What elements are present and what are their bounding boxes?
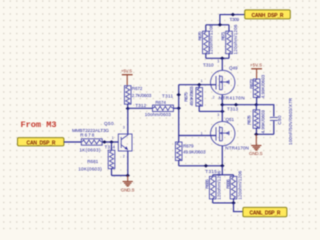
capacitor C80 [270, 116, 278, 118]
svg-text:3: 3 [217, 60, 219, 64]
svg-text:T314: T314 [105, 144, 116, 149]
svg-text:49.9K/0603: 49.9K/0603 [189, 86, 194, 106]
resistor R673 [253, 79, 260, 98]
svg-text:R671: R671 [220, 31, 225, 40]
wire R675 bottom to mid node [199, 110, 222, 112]
svg-text:120ohm/1206: 120ohm/1206 [233, 24, 238, 54]
transistor Q51 [211, 121, 235, 145]
svg-text:1K(0603): 1K(0603) [79, 148, 100, 153]
svg-text:100nF/50V/0603/X7R: 100nF/50V/0603/X7R [288, 97, 293, 145]
svg-text:R670: R670 [197, 31, 202, 40]
wire mid node to divider [222, 104, 256, 106]
resistor R675 [197, 83, 202, 87]
svg-text:NTR4170N: NTR4170N [225, 146, 249, 151]
svg-text:R679: R679 [183, 144, 194, 149]
node R681 tap [109, 140, 114, 144]
svg-text:R675: R675 [183, 92, 188, 102]
resistor R670 [205, 25, 207, 31]
wire Q49 source to mid node [221, 95, 223, 122]
node gnd junction [254, 133, 259, 137]
svg-text:R672: R672 [132, 86, 143, 91]
wire CANH top: rail to port [220, 15, 245, 25]
wire T312 to R674 [128, 107, 153, 109]
wire stub to R685/R686 rail [221, 166, 223, 175]
svg-text:R676: R676 [246, 115, 251, 125]
resistor R681 [111, 142, 113, 150]
port CAN_DSP_R [18, 138, 64, 146]
svg-text:CANH_DSP_R: CANH_DSP_R [252, 13, 284, 19]
node R674 junction [176, 106, 181, 110]
node T311 [176, 93, 181, 97]
transistor Q50 [118, 134, 132, 151]
resistor R674 [153, 105, 174, 111]
svg-text:2.7K/0603: 2.7K/0603 [132, 93, 152, 98]
resistor R676 [255, 105, 257, 110]
resistor R679 [178, 136, 180, 143]
port CANL_DSP_R [243, 207, 287, 216]
node T314 [102, 140, 107, 144]
wire divider to C80 top [256, 105, 274, 117]
node T312 [126, 107, 131, 111]
wire bottom of R685/R686 to CANL port [213, 202, 234, 204]
wire R678 to Q50 base [102, 141, 118, 143]
svg-text:C80: C80 [277, 115, 282, 124]
svg-text:T310: T310 [203, 62, 214, 67]
svg-text:Q51: Q51 [226, 117, 235, 122]
svg-text:2: 2 [213, 95, 215, 99]
node source rail [220, 164, 225, 168]
node junction top rail [218, 23, 223, 27]
wire bottom rail [179, 165, 223, 167]
svg-text:120ohm/1206: 120ohm/1206 [209, 24, 214, 54]
svg-text:120ohm/1206: 120ohm/1206 [238, 170, 243, 199]
wire Q51 gate lead [179, 135, 216, 137]
svg-text:T312: T312 [135, 103, 146, 108]
resistor R678 [81, 139, 102, 145]
svg-text:4.99K/0603: 4.99K/0603 [260, 74, 265, 98]
node divider [254, 103, 259, 107]
node T313 [234, 103, 239, 107]
svg-text:R678: R678 [80, 132, 94, 137]
svg-text:3: 3 [217, 113, 219, 117]
svg-text:120ohm/1206: 120ohm/1206 [217, 170, 222, 199]
svg-text:R674: R674 [155, 100, 166, 105]
svg-text:From M3: From M3 [21, 120, 57, 130]
wire Q49 gate lead [179, 84, 216, 86]
power +5V.S right [251, 69, 262, 80]
svg-text:49.9K/0603: 49.9K/0603 [183, 150, 206, 155]
node mid [220, 103, 225, 107]
resistor R671 [228, 25, 230, 31]
svg-text:1: 1 [201, 131, 203, 135]
svg-text:Q49: Q49 [229, 66, 238, 71]
svg-text:R686: R686 [226, 179, 231, 189]
wire Q50 emitter lead [127, 151, 129, 176]
transistor Q49 [211, 70, 235, 94]
svg-text:+5V.S: +5V.S [121, 69, 132, 74]
svg-text:R685: R685 [205, 179, 210, 189]
node T315 [204, 164, 209, 168]
svg-text:3: 3 [123, 126, 125, 130]
wire Q49 drain lead [221, 58, 223, 70]
wire gate bus vertical [178, 85, 180, 136]
resistor R685 [212, 175, 214, 177]
ground GND.S right [255, 134, 257, 139]
svg-text:+5V.S: +5V.S [250, 63, 262, 68]
wire R681 to emitter [112, 175, 128, 177]
port CANH_DSP_R [245, 10, 291, 19]
svg-text:Q50: Q50 [104, 121, 114, 126]
node emitter/gnd [125, 174, 130, 178]
node T309 [231, 13, 236, 17]
svg-text:10ohm/0603: 10ohm/0603 [145, 112, 171, 117]
svg-text:1: 1 [112, 136, 114, 140]
svg-text:R681: R681 [87, 159, 98, 164]
wire top rail R670/R671 tops [206, 24, 229, 26]
svg-text:GND.S: GND.S [249, 151, 263, 156]
power +5V.S left [122, 75, 133, 86]
svg-text:CAN_DSP_R: CAN_DSP_R [27, 140, 56, 146]
wire port to R678 [64, 141, 81, 143]
resistor R672 [124, 86, 131, 105]
svg-text:T309: T309 [230, 17, 240, 22]
svg-text:2: 2 [123, 154, 125, 158]
svg-text:4.99K/0603: 4.99K/0603 [260, 110, 265, 134]
svg-text:T313: T313 [227, 106, 238, 111]
svg-text:R673: R673 [249, 79, 254, 89]
ground GND.S left [123, 176, 133, 187]
wire Q50 collector [127, 109, 129, 136]
resistor R686 [233, 175, 235, 177]
svg-text:T315: T315 [205, 169, 217, 174]
node T310 [220, 57, 225, 61]
wire bottom rail of R670/R671 [206, 57, 229, 59]
svg-text:CANL_DSP_R: CANL_DSP_R [250, 211, 281, 217]
svg-text:T311: T311 [162, 93, 173, 98]
svg-text:GND.S: GND.S [121, 187, 135, 192]
svg-text:10K(0603): 10K(0603) [78, 167, 102, 172]
svg-text:1: 1 [201, 79, 203, 83]
wire Q51 source lead [221, 146, 223, 166]
